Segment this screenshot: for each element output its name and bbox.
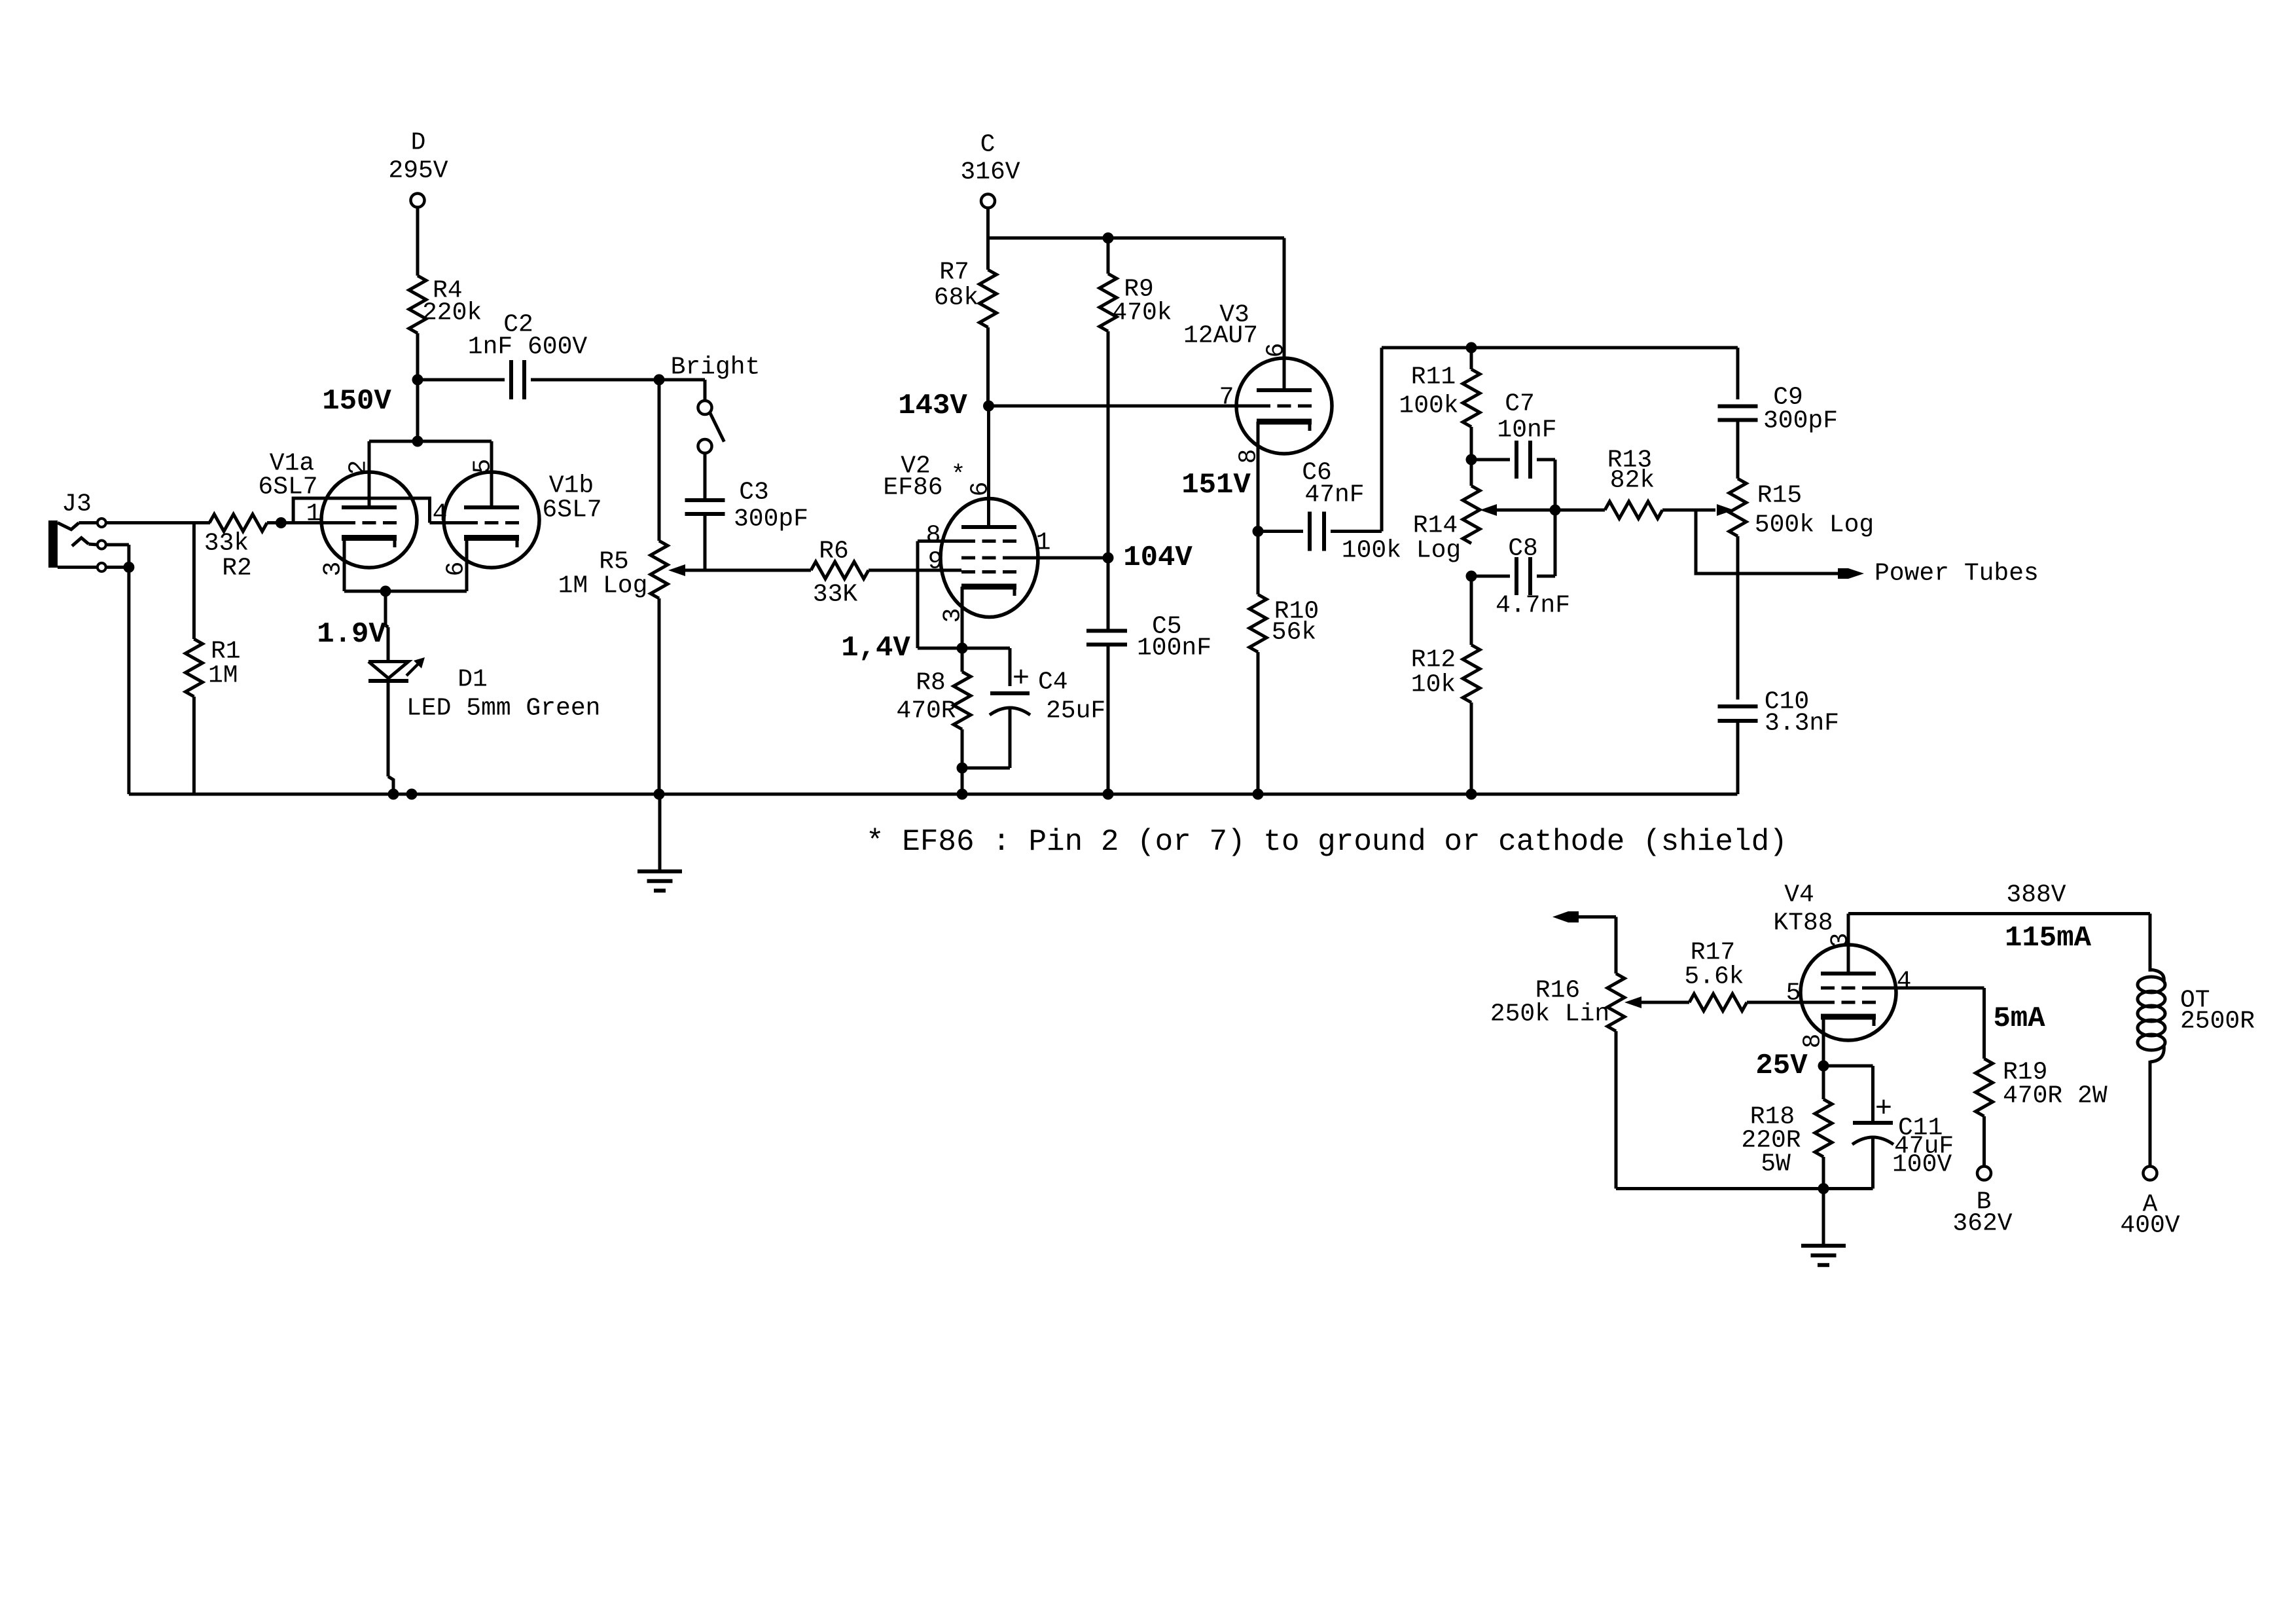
resistor R11	[1399, 348, 1480, 460]
svg-text:1,4V: 1,4V	[841, 632, 910, 665]
wire 143V to V3 grid	[989, 405, 1257, 408]
svg-text:C: C	[980, 131, 996, 159]
svg-text:220k: 220k	[422, 299, 482, 327]
capacitor C2	[418, 311, 659, 400]
resistor R19	[1976, 1059, 2108, 1167]
wire cathode return	[1616, 1183, 1873, 1194]
resistor R13	[1555, 447, 1715, 519]
resistor R9	[1100, 238, 1172, 558]
svg-text:8: 8	[1235, 449, 1263, 464]
svg-text:1M: 1M	[208, 662, 238, 690]
svg-text:C7: C7	[1505, 390, 1535, 418]
svg-text:C8: C8	[1508, 535, 1538, 563]
svg-text:470R: 470R	[896, 697, 956, 725]
svg-text:R8: R8	[916, 669, 946, 697]
capacitor C3	[685, 479, 809, 571]
svg-text:143V: 143V	[898, 390, 967, 422]
terminal C 316V	[960, 131, 1020, 270]
svg-text:5W: 5W	[1761, 1150, 1791, 1178]
svg-text:470k: 470k	[1112, 299, 1172, 327]
svg-text:3: 3	[1827, 933, 1855, 948]
resistor R6	[705, 538, 961, 609]
wire tone rail	[1382, 346, 1738, 350]
svg-text:12AU7: 12AU7	[1183, 322, 1258, 350]
svg-text:R14: R14	[1413, 512, 1458, 540]
svg-text:1.9V: 1.9V	[317, 618, 386, 651]
svg-text:5: 5	[469, 459, 497, 474]
svg-text:1: 1	[306, 500, 321, 528]
svg-text:316V: 316V	[960, 158, 1020, 187]
capacitor C9	[1718, 348, 1839, 435]
svg-text:3: 3	[939, 608, 967, 623]
junction R5 ground	[654, 789, 665, 800]
pentode V4 KT88	[1773, 881, 1984, 1067]
svg-text:* EF86 : Pin 2 (or 7) to groun: * EF86 : Pin 2 (or 7) to ground or catho…	[866, 825, 1787, 859]
svg-text:R7: R7	[939, 259, 969, 287]
junction R14 bottom	[1466, 571, 1477, 582]
svg-text:25V: 25V	[1755, 1049, 1808, 1082]
svg-text:2: 2	[345, 460, 373, 475]
capacitor C7	[1471, 390, 1557, 511]
capacitor C11	[1823, 1066, 1954, 1189]
node 5mA	[1993, 1002, 2045, 1035]
svg-text:8: 8	[1799, 1034, 1827, 1049]
svg-text:C4: C4	[1038, 668, 1068, 697]
svg-text:D: D	[411, 129, 426, 157]
resistor R12	[1411, 576, 1480, 800]
svg-text:6: 6	[967, 482, 995, 497]
wire jack sleeve to ground	[106, 545, 134, 794]
svg-text:25uF: 25uF	[1046, 697, 1105, 725]
potentiometer R5	[558, 380, 705, 794]
svg-text:R15: R15	[1757, 482, 1802, 510]
node 1,4V	[841, 632, 910, 665]
svg-text:115mA: 115mA	[2005, 922, 2092, 955]
node R8/C4 bottom	[957, 763, 968, 800]
svg-text:33k: 33k	[204, 530, 249, 558]
svg-text:6: 6	[442, 562, 471, 577]
svg-text:250k Lin: 250k Lin	[1490, 1000, 1609, 1029]
LED D1	[368, 591, 600, 794]
svg-text:295V: 295V	[388, 157, 448, 185]
svg-text:Bright: Bright	[671, 354, 761, 382]
svg-text:100nF: 100nF	[1137, 634, 1211, 663]
potentiometer R16	[1490, 974, 1689, 1189]
svg-text:*: *	[951, 462, 966, 490]
svg-text:J3: J3	[62, 490, 92, 519]
node R14 wiper	[1550, 505, 1561, 516]
svg-text:R11: R11	[1411, 363, 1456, 392]
svg-text:151V: 151V	[1181, 469, 1251, 501]
svg-text:8: 8	[926, 522, 941, 550]
svg-text:104V: 104V	[1123, 541, 1193, 574]
svg-text:R2: R2	[222, 555, 252, 583]
junction R11/C7	[1466, 342, 1477, 465]
triode V1b	[433, 441, 602, 591]
svg-text:V4: V4	[1784, 881, 1814, 909]
wire feedback from output	[1552, 911, 1616, 974]
svg-text:5mA: 5mA	[1993, 1002, 2045, 1035]
svg-text:+: +	[1875, 1093, 1892, 1125]
svg-text:5.6k: 5.6k	[1684, 963, 1744, 991]
svg-text:300pF: 300pF	[734, 505, 808, 534]
junction LED ground	[388, 789, 418, 800]
wire grid V1a/V1b	[281, 498, 464, 523]
svg-text:6SL7: 6SL7	[542, 496, 601, 524]
triode V1a	[258, 441, 417, 591]
svg-text:362V: 362V	[1952, 1210, 2012, 1238]
resistor R7	[934, 259, 997, 407]
svg-text:1nF 600V: 1nF 600V	[468, 333, 588, 361]
resistor R4	[409, 276, 482, 380]
svg-text:150V: 150V	[322, 385, 391, 418]
svg-text:1: 1	[1036, 529, 1051, 557]
node 151V	[1181, 469, 1263, 537]
svg-text:LED 5mm Green: LED 5mm Green	[406, 695, 600, 723]
node 25V	[1755, 1049, 1829, 1082]
wire 316V rail	[988, 238, 1285, 391]
capacitor C6	[1258, 348, 1382, 551]
svg-text:5: 5	[1786, 979, 1801, 1008]
svg-text:10nF: 10nF	[1497, 416, 1556, 445]
capacitor C4	[962, 648, 1105, 768]
svg-text:300pF: 300pF	[1763, 407, 1838, 435]
inductor OT	[2138, 968, 2255, 1166]
node 104V	[1103, 541, 1193, 574]
svg-text:Power Tubes: Power Tubes	[1874, 560, 2039, 588]
svg-text:3.3nF: 3.3nF	[1765, 710, 1839, 738]
svg-text:10k: 10k	[1411, 671, 1456, 699]
svg-text:400V: 400V	[2120, 1212, 2179, 1240]
note EF86	[866, 825, 1787, 859]
ground	[637, 794, 682, 890]
svg-text:9: 9	[928, 548, 943, 576]
svg-text:3: 3	[319, 562, 348, 577]
wire tip input	[106, 521, 210, 524]
wire cathode bus V1	[344, 586, 467, 597]
svg-text:470R 2W: 470R 2W	[2003, 1082, 2108, 1110]
svg-text:388V: 388V	[2006, 881, 2066, 909]
svg-text:R6: R6	[819, 538, 849, 566]
svg-text:EF86: EF86	[883, 474, 942, 502]
svg-text:2500R: 2500R	[2180, 1008, 2255, 1036]
svg-text:KT88: KT88	[1773, 909, 1833, 938]
wire 388V rail	[1848, 881, 2150, 969]
node 150V	[322, 374, 423, 418]
svg-text:82k: 82k	[1610, 467, 1655, 495]
resistor R1	[185, 523, 240, 795]
terminal B 362V	[1952, 1167, 2012, 1238]
junction R9 top	[1103, 232, 1114, 244]
svg-text:+: +	[1013, 663, 1030, 695]
svg-text:100k Log: 100k Log	[1342, 537, 1461, 565]
svg-text:500k Log: 500k Log	[1755, 511, 1874, 539]
capacitor C10	[1718, 688, 1840, 795]
svg-text:6: 6	[1263, 343, 1291, 358]
wire output Power Tubes	[1696, 510, 2039, 588]
resistor R8	[896, 648, 971, 768]
svg-text:100k: 100k	[1399, 392, 1458, 420]
svg-text:1M Log: 1M Log	[558, 572, 648, 600]
svg-text:33K: 33K	[813, 581, 858, 609]
connector J3 input jack	[48, 490, 106, 572]
svg-text:6SL7: 6SL7	[258, 473, 317, 501]
pentode V2 EF86	[883, 406, 1108, 648]
svg-text:56k: 56k	[1272, 619, 1316, 647]
svg-text:C3: C3	[739, 479, 769, 507]
node 143V	[898, 390, 994, 422]
resistor R10	[1249, 532, 1319, 800]
svg-text:68k: 68k	[934, 284, 978, 312]
svg-text:4.7nF: 4.7nF	[1496, 592, 1570, 620]
svg-text:47nF: 47nF	[1304, 481, 1364, 509]
svg-text:7: 7	[1219, 384, 1234, 412]
node Bright	[654, 354, 761, 386]
ground	[1801, 1189, 1846, 1266]
wire ground bus	[129, 793, 1738, 796]
resistor R2	[204, 515, 281, 583]
svg-text:100V: 100V	[1892, 1151, 1952, 1179]
terminal D 295V	[388, 129, 448, 276]
svg-text:4: 4	[1897, 968, 1912, 996]
svg-text:R12: R12	[1411, 646, 1456, 674]
capacitor C8	[1471, 510, 1570, 620]
potentiometer R15	[1717, 420, 1874, 700]
node 1.9V	[317, 618, 386, 651]
node V2 cathode	[957, 643, 968, 654]
switch Bright	[659, 380, 724, 500]
terminal A 400V	[2120, 1167, 2179, 1240]
wire anode rail V1	[369, 380, 492, 447]
node R2 output junction	[276, 517, 287, 528]
resistor R18	[1741, 1066, 1832, 1189]
potentiometer R14	[1342, 460, 1555, 565]
resistor R17	[1684, 939, 1821, 1012]
svg-text:D1: D1	[457, 666, 488, 694]
triode V3 12AU7	[1183, 301, 1332, 532]
capacitor C5	[1086, 558, 1211, 800]
svg-text:4: 4	[433, 500, 448, 528]
